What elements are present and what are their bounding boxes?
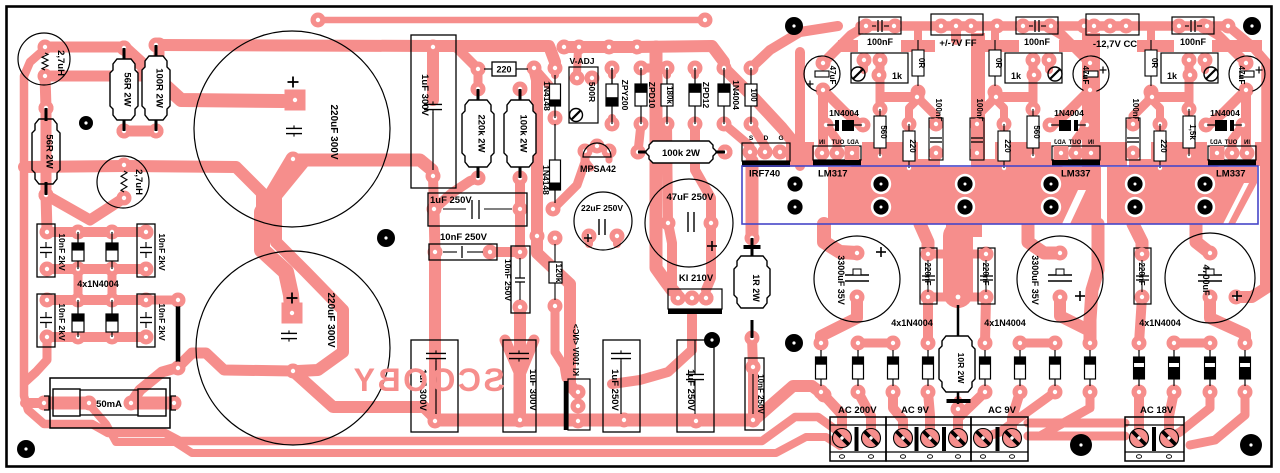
svg-text:-12,7V CC: -12,7V CC: [1093, 39, 1137, 50]
svg-text:220: 220: [1003, 139, 1012, 153]
svg-text:500R: 500R: [587, 82, 597, 102]
svg-text:220nF: 220nF: [981, 262, 990, 285]
svg-text:100nF: 100nF: [1024, 37, 1051, 47]
svg-text:560: 560: [1032, 125, 1041, 139]
svg-text:0R: 0R: [917, 58, 926, 68]
svg-text:KI 210V: KI 210V: [679, 273, 714, 284]
svg-text:10nF 250V: 10nF 250V: [503, 259, 513, 301]
svg-text:KI 100V <NC>: KI 100V <NC>: [571, 324, 580, 376]
svg-text:1uF 300V: 1uF 300V: [527, 369, 538, 411]
svg-text:100nF: 100nF: [1180, 37, 1207, 47]
svg-text:ADJ: ADJ: [847, 140, 859, 146]
svg-text:S: S: [749, 135, 754, 142]
svg-text:+/-7V FF: +/-7V FF: [939, 38, 976, 49]
svg-text:10nF 250V: 10nF 250V: [440, 232, 488, 243]
svg-text:4x1N4004: 4x1N4004: [891, 318, 933, 328]
svg-text:IN: IN: [1244, 140, 1250, 146]
svg-text:10nF 2kV: 10nF 2kV: [57, 233, 67, 271]
svg-text:ADJ: ADJ: [1054, 140, 1066, 146]
svg-text:1uF 250V: 1uF 250V: [685, 369, 696, 411]
svg-text:LM317: LM317: [818, 169, 848, 180]
svg-text:OUT: OUT: [831, 140, 844, 146]
svg-text:56R 2W: 56R 2W: [44, 134, 55, 168]
svg-text:OUT: OUT: [1068, 140, 1081, 146]
svg-text:AC 9V: AC 9V: [901, 405, 930, 416]
svg-text:220nF: 220nF: [1137, 262, 1146, 285]
svg-text:1k: 1k: [1167, 71, 1178, 81]
svg-text:IN: IN: [819, 140, 825, 146]
svg-text:1N4004: 1N4004: [731, 80, 741, 110]
svg-text:1N4148: 1N4148: [542, 81, 552, 111]
svg-text:1N4148: 1N4148: [541, 165, 551, 195]
svg-text:47uF 250V: 47uF 250V: [667, 192, 715, 203]
svg-text:4x1N4004: 4x1N4004: [77, 279, 119, 289]
svg-text:1k: 1k: [892, 71, 903, 81]
svg-text:50mA: 50mA: [96, 399, 122, 410]
svg-text:100R 2W: 100R 2W: [154, 68, 165, 108]
svg-text:AC 18V: AC 18V: [1140, 405, 1174, 416]
svg-text:220: 220: [908, 139, 917, 153]
svg-text:1uF 250V: 1uF 250V: [430, 195, 472, 206]
svg-text:1uF 300V: 1uF 300V: [419, 74, 430, 116]
svg-text:47uF: 47uF: [828, 66, 837, 85]
svg-text:47uF: 47uF: [1081, 66, 1090, 85]
svg-text:1k: 1k: [1011, 71, 1022, 81]
svg-text:4x1N4004: 4x1N4004: [984, 318, 1026, 328]
svg-text:1N4004: 1N4004: [829, 108, 859, 118]
svg-text:56R 2W: 56R 2W: [122, 72, 133, 106]
svg-text:120k: 120k: [554, 264, 564, 283]
svg-text:IRF740: IRF740: [749, 169, 780, 180]
svg-text:4x1N4004: 4x1N4004: [1139, 318, 1181, 328]
svg-text:220uF 300V: 220uF 300V: [328, 104, 339, 159]
svg-text:100k 2W: 100k 2W: [662, 148, 700, 159]
svg-text:1N4004: 1N4004: [1054, 108, 1084, 118]
svg-text:10R 2W: 10R 2W: [956, 353, 966, 385]
svg-text:ZPD10: ZPD10: [647, 82, 657, 109]
svg-text:10nF 2kV: 10nF 2kV: [157, 233, 167, 271]
svg-text:IN: IN: [1088, 140, 1094, 146]
svg-text:AC 200V: AC 200V: [838, 405, 877, 416]
svg-text:LM337: LM337: [1061, 169, 1091, 180]
svg-text:G: G: [778, 135, 783, 142]
svg-text:MPSA42: MPSA42: [580, 164, 616, 174]
svg-text:47uF: 47uF: [1237, 66, 1246, 85]
svg-text:1,5k: 1,5k: [1188, 124, 1197, 140]
svg-text:1R 2W: 1R 2W: [751, 274, 761, 302]
svg-text:100: 100: [749, 88, 758, 102]
svg-text:OUT: OUT: [1224, 140, 1237, 146]
svg-text:0R: 0R: [1150, 58, 1159, 68]
svg-text:220: 220: [1159, 139, 1168, 153]
svg-text:D: D: [764, 135, 769, 142]
svg-text:1uF 250V: 1uF 250V: [609, 369, 620, 411]
svg-text:100k 2W: 100k 2W: [518, 114, 529, 152]
svg-text:ZPY200: ZPY200: [620, 80, 630, 111]
svg-text:0R: 0R: [994, 58, 1003, 68]
svg-text:SCOOBY: SCOOBY: [351, 362, 505, 398]
svg-text:3300uF 35V: 3300uF 35V: [836, 255, 846, 305]
svg-text:ADJ: ADJ: [1210, 140, 1222, 146]
svg-text:10nF 2kV: 10nF 2kV: [57, 303, 67, 341]
svg-text:220uF 300V: 220uF 300V: [325, 292, 336, 347]
svg-text:180k: 180k: [665, 86, 674, 104]
svg-text:22uF 250V: 22uF 250V: [581, 203, 623, 213]
svg-text:ZPD12: ZPD12: [701, 82, 711, 109]
svg-text:V-ADJ: V-ADJ: [569, 56, 594, 66]
svg-text:LM337: LM337: [1216, 169, 1246, 180]
svg-text:AC 9V: AC 9V: [988, 405, 1017, 416]
svg-text:10nF 2kV: 10nF 2kV: [157, 303, 167, 341]
svg-text:2,7uH: 2,7uH: [55, 50, 66, 76]
svg-text:220: 220: [496, 65, 511, 75]
svg-text:10nF 250V: 10nF 250V: [756, 374, 765, 414]
svg-text:3300uF 35V: 3300uF 35V: [1030, 255, 1040, 305]
svg-text:2,7uH: 2,7uH: [133, 169, 144, 195]
svg-text:220k 2W: 220k 2W: [476, 114, 487, 152]
svg-text:100nF: 100nF: [867, 37, 894, 47]
svg-text:220nF: 220nF: [923, 262, 932, 285]
svg-text:1N4004: 1N4004: [1210, 108, 1240, 118]
svg-text:560: 560: [879, 125, 888, 139]
